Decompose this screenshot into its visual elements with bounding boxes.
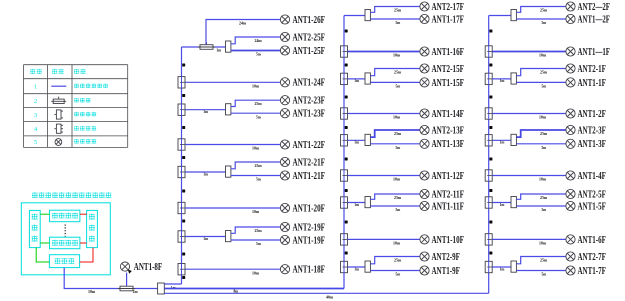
svg-text:ANT1-9F: ANT1-9F [432,266,460,277]
svg-text:ANT2-15F: ANT2-15F [432,64,465,75]
wire branch ANT2-23F [185,109,226,111]
legend name row2 耦合器 [74,98,90,103]
svg-text:ANT1-11F: ANT1-11F [432,201,465,212]
wire to ANT1-10F [348,238,420,240]
antenna ANT1-12F [420,171,464,182]
wire to ANT1-16F [348,51,420,53]
svg-text:25m: 25m [540,131,547,136]
wire branch ANT2-5F [492,202,511,204]
svg-text:ANT1-6F: ANT1-6F [578,235,606,246]
antenna ANT2-13F [420,125,464,136]
splitter on riser at ANT2-13F [341,135,348,146]
splitter on riser at ANT2-11F [341,197,348,208]
wire branch ANT2-15F [348,78,366,80]
svg-text:10m: 10m [252,146,259,151]
splitter 2-way ANT2-3F [511,134,516,145]
wire to ANT1-9F [370,270,420,272]
wire to ANT1-23F [231,112,281,114]
svg-text:25m: 25m [540,7,547,12]
svg-text:ANT1-5F: ANT1-5F [578,201,606,212]
splitter 2-way ANT2-1F [511,73,516,84]
svg-text:10m: 10m [393,53,400,58]
wire green splitter to repeater9 [40,242,49,244]
svg-text:10m: 10m [88,289,95,294]
splitter on riser at ANT1-10F [341,234,348,245]
riser1 segment marker 4m [182,126,185,129]
svg-text:2m: 2m [133,289,138,294]
legend icon row5: ceiling antenna symbol [55,139,62,146]
svg-text:5m: 5m [396,20,401,25]
svg-text:25m: 25m [394,195,401,200]
riser2 segment marker 4m [345,30,348,33]
legend table frame [24,65,128,148]
riser3 segment marker 4m [489,126,492,129]
antenna ANT2-21F [280,157,325,168]
antenna ANT1-13F [420,139,464,150]
svg-text:ANT1-25F: ANT1-25F [293,46,326,57]
antenna ANT2-25F [280,32,325,43]
wire feed riser 1 [164,283,181,285]
box 中继台一 [50,210,80,222]
equipment room outer box [21,203,110,275]
svg-text:5m: 5m [256,241,261,246]
svg-text:1m: 1m [500,78,505,83]
wire to ANT1-15F [370,81,420,83]
svg-text:1m: 1m [203,109,208,114]
note 注：主机置于八层弱电机房内 [32,192,111,198]
svg-text:25m: 25m [394,131,401,136]
antenna ANT1-5F [566,201,606,212]
splitter on riser at ANT1-14F [341,108,348,119]
wire coupler tap to ANT1-8F [126,273,128,286]
splitter 2-way ANT2-5F [511,197,516,208]
coupler on trunk (8F tap) [118,284,135,291]
antenna ANT1-11F [420,201,464,212]
svg-text:25m: 25m [255,228,262,233]
antenna ANT1-14F [420,109,464,120]
svg-text:1m: 1m [500,266,505,271]
box 双工器 [49,255,79,268]
riser3 segment marker 4m [489,221,492,224]
svg-text:5m: 5m [542,84,547,89]
antenna ANT1-15F [420,78,464,89]
svg-text:ANT1-20F: ANT1-20F [293,203,326,214]
legend name row3 二功分器 [74,112,96,117]
svg-text:ANT2-11F: ANT2-11F [432,189,465,200]
svg-text:1m: 1m [500,140,505,145]
wire to ANT1-20F [185,207,280,209]
riser2 segment marker 4m [345,126,348,129]
riser3 segment marker 4m [489,96,492,99]
riser2 segment marker 4m [345,64,348,67]
svg-text:10m: 10m [393,241,400,246]
svg-text:10m: 10m [393,115,400,120]
wire to ANT1-11F [370,205,420,207]
svg-text:5m: 5m [542,20,547,25]
svg-text:25m: 25m [540,69,547,74]
wire riser top turn to ANT2—2F [489,15,511,17]
svg-text:ANT1-1F: ANT1-1F [578,78,606,89]
antenna ANT2-11F [420,189,464,200]
antenna ANT2-3F [566,125,606,136]
wire to ANT2-15F [370,69,420,76]
svg-text:5: 5 [34,139,37,146]
antenna ANT1-24F [280,78,325,89]
wire feed riser 3 [164,292,488,294]
wire to ANT1-17F [370,18,420,20]
wire to ANT1-25F [231,50,281,52]
wire to ANT1-4F [492,175,566,177]
svg-text:24m: 24m [239,21,246,26]
svg-text:ANT2—2F: ANT2—2F [578,2,611,13]
splitter on riser at ANT1-2F [485,108,492,119]
wire branch ANT2-11F [348,202,366,204]
svg-text:ANT1-17F: ANT1-17F [432,14,465,25]
riser2 segment marker 4m [345,221,348,224]
antenna ANT2-9F [420,252,460,263]
svg-text:25m: 25m [255,101,262,106]
wire to ANT2-25F [231,37,281,44]
wire to ANT1-12F [348,175,420,177]
riser3 segment marker 4m [489,189,492,192]
antenna ANT2-17F [420,2,464,13]
box 合路器 [87,210,98,247]
wire red combiner to duplexer [80,248,93,262]
splitter 2-way ANT2-23F [226,104,231,115]
wire to ANT2-21F [231,162,281,169]
wire to ANT2-9F [370,257,420,264]
svg-text:25m: 25m [394,69,401,74]
svg-text:ANT1-26F: ANT1-26F [293,15,326,26]
svg-text:10m: 10m [539,241,546,246]
svg-text:25m: 25m [540,257,547,262]
svg-text:2: 2 [34,98,37,105]
wire to ANT1-14F [348,113,420,115]
riser1 segment marker 4m [182,64,185,67]
antenna ANT2-23F [280,96,325,107]
svg-text:5m: 5m [256,114,261,119]
splitter on riser at ANT1-24F [178,77,185,88]
antenna ANT1-4F [566,171,606,182]
svg-text:ANT1-4F: ANT1-4F [578,171,606,182]
dotted line between repeaters [64,225,66,237]
legend header 序号 图标 名称 [30,69,85,74]
wire feed riser 2 [164,288,344,290]
wire to ANT1-22F [185,144,280,146]
wire to ANT1—2F [516,18,566,20]
splitter on riser at ANT2-3F [485,135,492,146]
wire to ANT2-23F [231,100,281,106]
svg-text:5m: 5m [542,145,547,150]
antenna ANT1-22F [280,140,325,151]
svg-text:10m: 10m [252,270,259,275]
splitter 2-way ANT2-19F [226,231,231,242]
antenna ANT1-16F [420,47,464,58]
svg-text:ANT2-13F: ANT2-13F [432,125,465,136]
antenna ANT1-1F [566,78,606,89]
splitter 2-way ANT2-21F [226,166,231,177]
antenna ANT1-10F [420,235,464,246]
splitter 2-way ANT2-9F [365,261,370,272]
riser2 segment marker 4m [345,252,348,255]
svg-text:5m: 5m [542,272,547,277]
svg-text:5m: 5m [396,207,401,212]
wire to ANT2-3F [516,130,566,137]
svg-text:ANT1—2F: ANT1—2F [578,14,611,25]
svg-text:ANT2-19F: ANT2-19F [293,222,326,233]
splitter on riser at ANT2-9F [341,261,348,272]
antenna ANT1-9F [420,266,460,277]
wire to ANT1-2F [492,113,566,115]
svg-text:ANT1-12F: ANT1-12F [432,171,465,182]
wire to ANT2-19F [231,227,281,233]
svg-text:1: 1 [34,84,37,91]
svg-text:ANT1-15F: ANT1-15F [432,78,465,89]
wire branch ANT2-7F [492,266,511,268]
svg-text:ANT1-14F: ANT1-14F [432,109,465,120]
antenna ANT1-21F [280,171,325,182]
svg-text:ANT1-2F: ANT1-2F [578,109,606,120]
antenna ANT2-1F [566,64,606,75]
svg-text:5m: 5m [542,207,547,212]
svg-text:10m: 10m [252,84,259,89]
wire to ANT1-13F [370,143,420,145]
svg-text:25m: 25m [394,7,401,12]
antenna ANT1-7F [566,266,606,277]
splitter on riser at ANT2-19F [178,231,185,242]
svg-text:5m: 5m [396,84,401,89]
antenna ANT2—2F [566,2,610,13]
splitter on riser at ANT2-23F [178,104,185,115]
wire to ANT1-5F [516,205,566,207]
svg-text:1m: 1m [354,266,359,271]
legend icon row3: 2-way splitter symbol [54,110,63,119]
splitter 2-way ANT2-15F [365,73,370,84]
splitter on riser at ANT1-6F [485,234,492,245]
splitter 2-way ANT2—2F [511,10,516,21]
svg-text:1m: 1m [354,78,359,83]
splitter on riser at ANT1-22F [178,139,185,150]
svg-text:ANT1-23F: ANT1-23F [293,109,326,120]
wire green splitter to duplexer [36,248,49,262]
svg-text:5m: 5m [396,145,401,150]
antenna ANT2-15F [420,64,464,75]
svg-text:1m: 1m [203,236,208,241]
wire branch ANT2-1F [492,78,511,80]
wire branch ANT2-3F [492,139,511,141]
svg-text:ANT1-13F: ANT1-13F [432,139,465,150]
wire riser 1 vertical [181,47,183,284]
riser1 segment marker 4m [182,190,185,193]
antenna ANT1—2F [566,14,610,25]
riser3 segment marker 4m [489,158,492,161]
wire branch ANT2-21F [185,171,226,173]
splitter on riser at ANT1-18F [178,264,185,275]
legend icon row2: coupler symbol [51,97,66,104]
wire to ANT1-24F [185,81,280,83]
riser1 segment marker 4m [182,156,185,159]
riser3 segment marker 4m [489,64,492,67]
box 分路器 [29,210,40,247]
svg-text:3: 3 [34,112,37,119]
splitter 2-way ANT2-7F [511,261,516,272]
svg-text:ANT1-8F: ANT1-8F [134,262,162,273]
svg-text:ANT2-5F: ANT2-5F [578,189,606,200]
antenna ANT1-3F [566,139,606,150]
wire branch ANT2-19F [185,236,226,238]
svg-text:25m: 25m [540,195,547,200]
antenna ANT1-6F [566,235,606,246]
antenna ANT1-2F [566,109,606,120]
riser1 segment marker 4m [182,253,185,256]
svg-text:25m: 25m [394,257,401,262]
wire branch ANT2-13F [348,139,366,141]
wire to ANT2-5F [516,194,566,199]
svg-text:ANT1-10F: ANT1-10F [432,235,465,246]
svg-text:1m: 1m [354,202,359,207]
svg-text:ANT2-17F: ANT2-17F [432,2,465,13]
riser3 segment marker 4m [489,30,492,33]
svg-text:ANT2-7F: ANT2-7F [578,252,606,263]
splitter 2-way ANT2-13F [365,134,370,145]
svg-text:ANT1-18F: ANT1-18F [293,265,326,276]
splitter on riser at ANT1-20F [178,202,185,213]
antenna ANT2-7F [566,252,606,263]
wire to ANT1—1F [492,51,566,53]
wire to ANT2—2F [516,7,566,13]
svg-text:ANT1-3F: ANT1-3F [578,139,606,150]
svg-text:10m: 10m [539,115,546,120]
riser2 segment marker 4m [345,158,348,161]
box 中继台九 [50,237,80,249]
wire riser top turn to ANT2-17F [344,15,365,17]
svg-text:ANT1-22F: ANT1-22F [293,140,326,151]
antenna ANT1-19F [280,235,325,246]
svg-text:ANT2-23F: ANT2-23F [293,96,326,107]
wire to ANT1-7F [516,270,566,272]
svg-text:ANT2-21F: ANT2-21F [293,157,326,168]
antenna ANT1-25F [280,46,325,57]
antenna ANT1-17F [420,14,464,25]
wire coupler tap to ANT1-26F [206,20,280,45]
antenna ANT1-18F [280,265,325,276]
antenna ANT2-5F [566,189,606,200]
antenna ANT1-8F [120,262,162,274]
antenna ANT1-26F [280,15,325,26]
wire duplexer to trunk [64,268,157,289]
svg-text:24m: 24m [255,38,262,43]
riser1 segment marker 4m [182,276,185,279]
svg-text:10m: 10m [252,209,259,214]
legend icon row1: coax cable line [51,85,66,87]
wire riser 3 vertical [488,16,490,294]
svg-text:25m: 25m [255,163,262,168]
wire to ANT2-1F [516,69,566,76]
splitter on riser at ANT2-5F [485,197,492,208]
splitter on riser at ANT2-15F [341,73,348,84]
wire green splitter to repeater1 [40,213,49,215]
wire to ANT1-6F [492,238,566,240]
svg-text:ANT2-3F: ANT2-3F [578,125,606,136]
riser2 segment marker 4m [345,96,348,99]
antenna ANT1—1F [566,47,610,58]
riser1 segment marker 4m [182,220,185,223]
wire to ANT1-21F [231,175,281,177]
splitter on riser at ANT1-12F [341,170,348,181]
coupler 25F tap [198,42,215,49]
splitter 2-way ANT2-11F [365,197,370,208]
legend name row5 吸顶天线 [74,139,96,144]
splitter on riser at ANT1-4F [485,170,492,181]
svg-text:ANT1-19F: ANT1-19F [293,235,326,246]
svg-text:10m: 10m [393,177,400,182]
legend name row4 三功分器 [74,126,96,131]
splitter on riser at ANT2-7F [485,261,492,272]
riser1 segment marker 4m [182,94,185,97]
wire to ANT2-17F [370,7,420,13]
svg-text:5m: 5m [256,177,261,182]
svg-text:5m: 5m [396,272,401,277]
svg-text:1m: 1m [203,171,208,176]
wire red repeater9 to combiner [80,242,87,244]
wire to ANT2-11F [370,194,420,199]
svg-text:1m: 1m [354,140,359,145]
wire to ANT2-13F [370,130,420,137]
legend name row1 射频同轴电缆 [74,84,108,89]
wire red repeater1 to combiner [80,213,87,215]
wire to ANT1-3F [516,143,566,145]
svg-text:ANT1—1F: ANT1—1F [578,47,611,58]
svg-text:ANT1-21F: ANT1-21F [293,171,326,182]
riser3 segment marker 4m [489,252,492,255]
svg-text:3m: 3m [217,48,222,53]
svg-text:ANT2-9F: ANT2-9F [432,252,460,263]
svg-text:10m: 10m [539,53,546,58]
svg-text:40m: 40m [326,294,333,299]
antenna ANT1-20F [280,203,325,214]
wire riser 2 vertical [343,16,345,289]
3-way trunk splitter [158,283,165,294]
splitter on riser at ANT1-16F [341,46,348,57]
splitter on riser at ANT1—1F [485,46,492,57]
svg-text:ANT2-25F: ANT2-25F [293,32,326,43]
svg-text:10m: 10m [539,177,546,182]
wire to ANT1-19F [231,239,281,241]
svg-text:ANT1-16F: ANT1-16F [432,47,465,58]
splitter 2-way ANT2-17F [365,10,370,21]
svg-text:5m: 5m [256,52,261,57]
svg-text:ANT2-1F: ANT2-1F [578,64,606,75]
svg-text:1m: 1m [500,202,505,207]
wire to ANT1-18F [185,268,280,270]
svg-text:ANT1-7F: ANT1-7F [578,266,606,277]
legend icon row4: 3-way splitter symbol [54,124,63,133]
antenna ANT2-19F [280,222,325,233]
splitter on riser at ANT2-1F [485,73,492,84]
wire branch ANT2-9F [348,266,366,268]
riser2 segment marker 4m [345,189,348,192]
splitter 2-way 25F [226,41,231,52]
wire riser1 top to 25F splitter [182,46,226,48]
wire to ANT1-1F [516,81,566,83]
wire to ANT2-7F [516,257,566,264]
splitter on riser at ANT2-21F [178,166,185,177]
antenna ANT1-23F [280,109,325,120]
svg-text:ANT1-24F: ANT1-24F [293,78,326,89]
